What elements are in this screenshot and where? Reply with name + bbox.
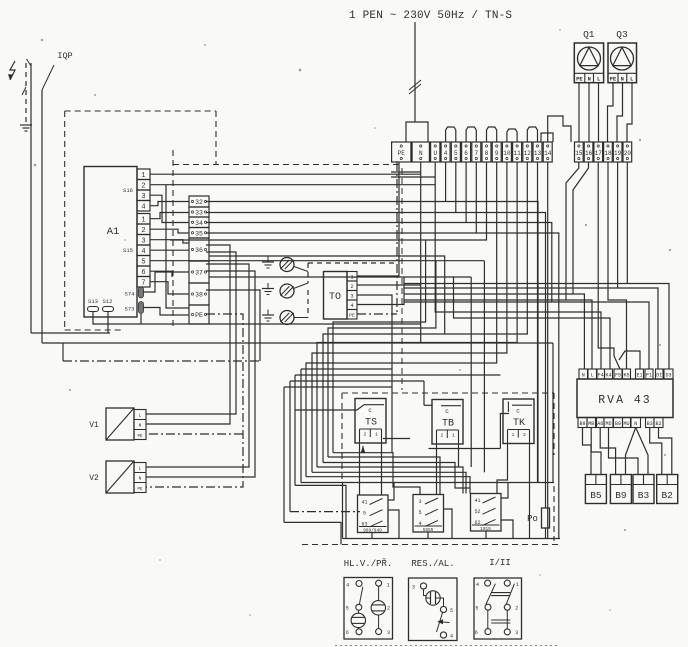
svg-text:6: 6 bbox=[141, 269, 145, 277]
dashed border right of A1 bbox=[172, 150, 174, 330]
jumper loop terminals 10-11 bbox=[507, 129, 517, 142]
wire row 302 left extension bbox=[404, 301, 552, 303]
switch legend HL.V./PR. bbox=[344, 578, 393, 640]
wire IQP feeder bbox=[41, 90, 43, 343]
wire nested row 381 to TB bbox=[290, 380, 424, 382]
svg-text:5: 5 bbox=[475, 606, 478, 612]
svg-text:c: c bbox=[368, 407, 372, 414]
svg-text:L: L bbox=[139, 413, 142, 419]
svg-text:PE: PE bbox=[610, 77, 617, 83]
svg-text:4: 4 bbox=[141, 248, 145, 256]
svg-text:37: 37 bbox=[195, 270, 203, 277]
terminal strip X1 (PE N U 4-14) bbox=[392, 142, 553, 162]
svg-text:F1: F1 bbox=[646, 373, 652, 379]
svg-text:2: 2 bbox=[523, 432, 526, 438]
wire terminal 13 drop deep to rail bbox=[537, 162, 539, 483]
svg-text:6: 6 bbox=[346, 630, 349, 636]
switch legend I/II bbox=[474, 578, 522, 639]
svg-text:36: 36 bbox=[195, 247, 203, 254]
svg-text:2: 2 bbox=[350, 283, 353, 290]
svg-text:PE: PE bbox=[137, 488, 143, 492]
wire K3 bottom bbox=[485, 531, 487, 539]
svg-text:RVA 43: RVA 43 bbox=[598, 394, 651, 407]
svg-text:N: N bbox=[419, 150, 423, 157]
wire 38 to PE run bbox=[206, 290, 260, 361]
svg-text:PE: PE bbox=[349, 313, 355, 319]
wire sensor 3 tap bbox=[294, 317, 308, 319]
svg-text:2: 2 bbox=[141, 183, 145, 191]
wire row 254 to K3 riser2 bbox=[436, 260, 485, 262]
thermostat TS bbox=[355, 399, 386, 444]
svg-text:PE: PE bbox=[398, 150, 406, 157]
sensor B2 bbox=[657, 475, 678, 504]
jumper loop terminals 4-5 bbox=[446, 127, 456, 142]
wire 34 row to F1 bbox=[206, 223, 649, 370]
svg-text:HL.V./PŘ.: HL.V./PŘ. bbox=[344, 558, 393, 569]
svg-text:B3: B3 bbox=[647, 421, 653, 427]
jumper loop terminals 8-9 bbox=[487, 127, 497, 142]
wire rows below PE bbox=[391, 171, 421, 173]
wire RVA B2 to B2 right bbox=[659, 428, 672, 475]
wire dash-dot into relay K1 bbox=[290, 511, 360, 513]
svg-text:41: 41 bbox=[474, 498, 480, 504]
dashed shield run horizontal bbox=[308, 262, 397, 264]
jumper hook 14 to 15 bbox=[548, 116, 571, 142]
wire A1:7b to 38 bbox=[150, 282, 189, 294]
wire bus bottom row 8 bbox=[295, 485, 346, 538]
wire N drop to bottom bus bbox=[420, 162, 422, 343]
svg-text:3: 3 bbox=[412, 585, 415, 591]
wire TB bottom link bbox=[429, 448, 501, 450]
wire 32 row deep to rail bbox=[206, 202, 538, 483]
wire TO PE dash-dot bbox=[357, 313, 397, 315]
svg-text:N: N bbox=[634, 421, 637, 427]
svg-text:5: 5 bbox=[450, 608, 453, 614]
wire S73 to PE cell bbox=[144, 308, 190, 316]
svg-text:32: 32 bbox=[195, 199, 203, 206]
wire K1 bottom bbox=[371, 533, 373, 539]
valve V2 bbox=[106, 461, 134, 493]
wire chain row240 to nested bus bbox=[333, 240, 426, 453]
wire Q1 N to terminal 16 bbox=[588, 83, 590, 142]
svg-text:K5: K5 bbox=[623, 373, 629, 379]
jumper loop terminals 6-7 bbox=[466, 127, 476, 142]
outdoor sensor 3 with ground bbox=[262, 310, 294, 325]
svg-text:20: 20 bbox=[624, 150, 632, 157]
wire 33 row deep to fuse Po bbox=[206, 213, 546, 483]
wire TK c down left bbox=[500, 414, 509, 449]
svg-text:B9: B9 bbox=[579, 421, 585, 427]
wire K2 right bbox=[444, 509, 453, 539]
dashed shield run vertical bbox=[307, 263, 309, 283]
wire RVA N fork right to B3 right bbox=[636, 428, 648, 475]
controller RVA 43 bbox=[577, 379, 673, 418]
wire terminal 14 drop deep bbox=[547, 162, 549, 539]
svg-text:V2: V2 bbox=[89, 474, 99, 483]
wire hop to E1 bbox=[619, 351, 640, 369]
svg-text:L: L bbox=[630, 77, 633, 83]
ground symbol left bbox=[20, 124, 32, 126]
svg-text:1: 1 bbox=[387, 583, 390, 589]
wire 37 to V2 L bbox=[146, 264, 249, 467]
outdoor sensor 2 with ground bbox=[262, 283, 294, 298]
svg-text:3: 3 bbox=[141, 238, 145, 246]
sensor B5 bbox=[585, 475, 606, 504]
svg-text:PE: PE bbox=[195, 312, 203, 319]
svg-text:TK: TK bbox=[513, 418, 525, 429]
wire Q1 PE to terminal 15 bbox=[578, 83, 580, 142]
wire TO2 tap bbox=[357, 284, 421, 286]
wire bus bottom row 6 bbox=[306, 477, 470, 494]
svg-text:S73: S73 bbox=[125, 306, 135, 313]
wire terminal 10 drop to nested bus bbox=[312, 162, 507, 472]
svg-text:MB: MB bbox=[588, 421, 594, 427]
wire sensor 2 tap bbox=[294, 283, 309, 289]
wire terminal 12 drop to nested bus bbox=[323, 162, 527, 463]
wire row 256 chain bbox=[209, 256, 445, 334]
svg-text:L: L bbox=[591, 373, 594, 379]
thermostat TB bbox=[432, 400, 463, 445]
svg-text:F4: F4 bbox=[598, 373, 604, 379]
svg-text:12: 12 bbox=[524, 150, 532, 157]
svg-text:DI: DI bbox=[656, 373, 662, 379]
dashed enclosure thermostat group bbox=[342, 392, 554, 394]
dashed enclosure around A1 bbox=[65, 110, 216, 112]
svg-text:6: 6 bbox=[475, 630, 478, 636]
svg-text:2: 2 bbox=[141, 227, 145, 235]
wire PE dash-dot bottom bbox=[63, 360, 260, 362]
wire row 294 left extension bbox=[404, 293, 573, 295]
svg-text:S12: S12 bbox=[103, 298, 113, 305]
relay contacts K2 bbox=[413, 495, 444, 533]
wire row 265 to K3 riser bbox=[454, 276, 472, 278]
svg-text:5: 5 bbox=[418, 510, 421, 516]
wire stub to dash-dot PE run bbox=[62, 343, 64, 361]
svg-text:L: L bbox=[597, 77, 600, 83]
wire sensor 1 tap bbox=[294, 267, 308, 272]
wire TK bottom to relay K3 bbox=[497, 447, 508, 494]
jumper loop terminals 12-13 bbox=[527, 127, 537, 142]
wire A1:1b to 33 bbox=[150, 213, 189, 219]
svg-text:TS: TS bbox=[365, 418, 377, 429]
svg-text:L: L bbox=[139, 466, 142, 472]
wire 35 row deep to bottom rail bbox=[206, 233, 559, 539]
wire A1:3 to 34 bbox=[150, 195, 189, 222]
wire A1:2 row right bbox=[150, 184, 435, 186]
svg-text:I/II: I/II bbox=[489, 558, 511, 568]
wire A1:4 to 32 bbox=[150, 202, 189, 206]
svg-text:B9: B9 bbox=[615, 421, 621, 427]
svg-text:MD: MD bbox=[605, 421, 611, 427]
svg-text:8: 8 bbox=[485, 150, 489, 157]
svg-text:4: 4 bbox=[141, 204, 145, 212]
wire Q3 L to terminal 20 bbox=[627, 83, 632, 142]
relay contacts K3 bbox=[471, 494, 502, 532]
wire N bottom horizontal bbox=[42, 342, 553, 344]
wire row277 to K4 bbox=[209, 277, 610, 369]
wire TO 4 bbox=[357, 277, 404, 305]
svg-text:B2: B2 bbox=[655, 421, 661, 427]
svg-text:PE: PE bbox=[576, 77, 583, 83]
wire below S73 bbox=[140, 314, 142, 324]
svg-text:52: 52 bbox=[474, 509, 480, 515]
svg-text:4: 4 bbox=[444, 150, 448, 157]
wire Q3 N to terminal 19 bbox=[617, 83, 623, 142]
cable mark on supply wire bbox=[409, 84, 421, 94]
svg-text:B9: B9 bbox=[615, 490, 627, 501]
svg-text:3: 3 bbox=[515, 630, 518, 636]
wire N row drop right bbox=[552, 343, 554, 483]
wire L feeder bbox=[30, 63, 32, 333]
wire terminal 15 drop diagonal to L bbox=[566, 162, 592, 369]
svg-text:Q3: Q3 bbox=[616, 29, 628, 40]
dashed border below strip bbox=[401, 168, 403, 390]
svg-text:16: 16 bbox=[585, 150, 593, 157]
wire S74 to 37 bbox=[144, 272, 190, 292]
thermostat TO bbox=[324, 272, 348, 320]
wire TB bottom to relay K2 bbox=[436, 448, 438, 495]
wire terminal 4 drop bbox=[445, 162, 447, 202]
svg-text:2: 2 bbox=[441, 433, 444, 439]
wire TO 3 bbox=[357, 295, 392, 453]
svg-text:U: U bbox=[433, 150, 437, 157]
svg-text:N: N bbox=[139, 423, 142, 429]
svg-text:14: 14 bbox=[544, 150, 552, 157]
svg-text:Q1: Q1 bbox=[583, 29, 595, 40]
wire K3 right bbox=[501, 483, 508, 499]
svg-text:c: c bbox=[516, 408, 520, 415]
wire supply split to PE and N bbox=[406, 122, 428, 142]
wire TS bottom right bbox=[383, 438, 410, 440]
wire terminal 20 drop to D3 bbox=[627, 162, 669, 369]
svg-text:19: 19 bbox=[614, 150, 622, 157]
svg-text:33: 33 bbox=[195, 210, 203, 217]
wire terminal 6 drop bbox=[465, 162, 467, 223]
svg-text:5: 5 bbox=[346, 606, 349, 612]
svg-text:34: 34 bbox=[195, 220, 203, 227]
wire supply drop bbox=[414, 22, 416, 122]
wire chain row260 to nested bus bbox=[150, 261, 436, 457]
svg-text:K4: K4 bbox=[605, 373, 611, 379]
svg-text:2: 2 bbox=[364, 432, 367, 438]
wire row 300 left extension bbox=[404, 299, 566, 301]
wire A1:4b stub bbox=[150, 249, 189, 251]
wire TS bottom to relay K1 bbox=[359, 447, 361, 496]
wire RVA N fork left to B9 right bbox=[626, 428, 636, 475]
dotted bottom scan edge bbox=[335, 645, 560, 647]
wire terminal 17 drop to F5 bbox=[598, 162, 620, 369]
sensor B3 bbox=[633, 475, 654, 504]
svg-text:N: N bbox=[582, 373, 585, 379]
svg-text:V1: V1 bbox=[89, 421, 99, 430]
svg-text:18: 18 bbox=[604, 150, 612, 157]
wire RVA A6 to B9 left bbox=[600, 428, 615, 475]
dashed border top of bus bbox=[173, 164, 402, 166]
wire bus bottom row 5 bbox=[312, 472, 466, 493]
svg-text:1: 1 bbox=[375, 432, 378, 438]
svg-text:4: 4 bbox=[450, 634, 453, 640]
svg-text:15: 15 bbox=[575, 150, 583, 157]
wire terminal 8 drop bbox=[170, 162, 487, 240]
wire PE dash-dot from strip to TO bbox=[396, 162, 398, 314]
valve V1 bbox=[106, 408, 134, 440]
thermostat TK bbox=[503, 399, 534, 444]
svg-text:1: 1 bbox=[516, 582, 519, 588]
wire K2 bottom bbox=[427, 532, 429, 539]
svg-text:1: 1 bbox=[512, 432, 515, 438]
svg-text:A6: A6 bbox=[597, 421, 603, 427]
wire RVA B9 to B5 left bbox=[583, 428, 592, 475]
wire nested row 369 bbox=[301, 368, 392, 370]
outdoor sensor 1 with ground bbox=[262, 257, 294, 272]
wire into TS left with lever bbox=[295, 405, 364, 410]
svg-text:2: 2 bbox=[387, 606, 390, 612]
svg-text:B5: B5 bbox=[590, 490, 602, 501]
svg-text:13: 13 bbox=[534, 150, 542, 157]
wire terminal 5 drop bbox=[455, 162, 457, 213]
wire 36 to V1 N bbox=[146, 245, 230, 424]
svg-text:A1: A1 bbox=[107, 226, 120, 238]
svg-text:4: 4 bbox=[476, 582, 479, 588]
svg-text:c: c bbox=[445, 408, 449, 415]
svg-text:Po: Po bbox=[527, 514, 538, 524]
svg-text:TO: TO bbox=[329, 292, 341, 303]
wire U drop to F4 bbox=[435, 162, 601, 369]
svg-text:N: N bbox=[588, 77, 591, 83]
wire terminal 7 drop bbox=[475, 162, 477, 233]
controller A1 bbox=[84, 167, 137, 318]
svg-text:7: 7 bbox=[141, 280, 145, 288]
wire Q3 PE to terminal 18 bbox=[608, 83, 614, 142]
svg-text:E1: E1 bbox=[636, 373, 642, 379]
svg-text:S15: S15 bbox=[123, 247, 133, 254]
svg-text:RES./AL.: RES./AL. bbox=[411, 559, 454, 569]
svg-text:10: 10 bbox=[503, 150, 511, 157]
svg-text:TB: TB bbox=[442, 419, 454, 430]
svg-text:1 PEN ~ 230V 50Hz / TN-S: 1 PEN ~ 230V 50Hz / TN-S bbox=[349, 10, 512, 22]
svg-text:7: 7 bbox=[474, 150, 478, 157]
svg-text:D3: D3 bbox=[665, 373, 671, 379]
wire bottom left link bbox=[284, 522, 341, 544]
wire PEN dashed with earth bbox=[25, 63, 27, 125]
wire rail bottom bbox=[343, 538, 561, 540]
wire nested row 387 bbox=[284, 386, 392, 388]
wire 36 to V1 L bbox=[146, 252, 236, 414]
wire bottom horizontal to S12 bbox=[31, 332, 110, 334]
wire S12 down bbox=[107, 312, 109, 333]
wire 37 to V2 N bbox=[146, 271, 255, 477]
sensor B9 bbox=[610, 475, 631, 504]
wire TO 1 bbox=[357, 162, 399, 276]
svg-text:1: 1 bbox=[452, 433, 455, 439]
switch legend RES./AL. bbox=[409, 578, 458, 641]
wire bus bottom row 4 bbox=[317, 467, 463, 494]
lightning arrow symbol bbox=[10, 61, 15, 80]
svg-text:3: 3 bbox=[418, 499, 421, 505]
svg-text:IQP: IQP bbox=[57, 51, 72, 61]
svg-text:4: 4 bbox=[346, 583, 349, 589]
wire RVA MB to B5 right bbox=[591, 428, 601, 475]
svg-text:9: 9 bbox=[495, 150, 499, 157]
svg-text:S74: S74 bbox=[125, 291, 136, 298]
wire bus bottom row 2 bbox=[328, 457, 440, 495]
svg-text:N: N bbox=[621, 77, 624, 83]
wire K1 right to rail bbox=[388, 483, 394, 501]
wire terminal 18 drop to K5 bbox=[608, 162, 627, 369]
svg-text:2: 2 bbox=[515, 606, 518, 612]
wire bus bottom row 1 bbox=[333, 453, 420, 495]
wire terminal 9 drop to nested bus bbox=[306, 162, 497, 477]
svg-text:S16: S16 bbox=[123, 187, 133, 194]
wire S13 down and right bbox=[93, 312, 421, 324]
svg-text:1: 1 bbox=[141, 172, 145, 180]
wire A1:2 down to 38 bbox=[166, 185, 189, 308]
wire A1:6b link bbox=[150, 271, 172, 277]
svg-text:MU: MU bbox=[623, 421, 629, 427]
svg-text:3: 3 bbox=[350, 293, 353, 300]
svg-text:B3: B3 bbox=[638, 490, 650, 501]
svg-text:B2: B2 bbox=[661, 490, 673, 501]
wire bus bottom row 3 bbox=[323, 463, 470, 489]
svg-text:3: 3 bbox=[387, 630, 390, 636]
wire A1:2b to 35 bbox=[150, 229, 189, 233]
wire rail top bbox=[301, 482, 554, 484]
wire A1:3b to 36 bbox=[150, 240, 189, 243]
svg-text:38: 38 bbox=[195, 292, 203, 299]
wire terminal 11 drop to nested bus bbox=[317, 162, 517, 467]
wire into TB left bbox=[424, 404, 432, 406]
wire RVA B3 to B2 left bbox=[650, 428, 662, 475]
svg-text:5: 5 bbox=[454, 150, 458, 157]
svg-text:35: 35 bbox=[195, 230, 203, 237]
wire A1:1 row to N drop bbox=[150, 173, 421, 175]
relay contacts K1 bbox=[358, 495, 389, 533]
terminal strip X2 (15-20) bbox=[575, 142, 632, 162]
svg-text:989/949: 989/949 bbox=[363, 528, 382, 533]
svg-text:5: 5 bbox=[363, 511, 366, 517]
svg-text:11: 11 bbox=[513, 150, 521, 157]
wire Q1 L to terminal 17 bbox=[598, 83, 600, 142]
svg-text:3: 3 bbox=[141, 193, 145, 201]
svg-text:S13: S13 bbox=[88, 298, 98, 305]
terminal strip 32-38 PE bbox=[189, 196, 209, 324]
jumper stub above 13-14 bbox=[541, 133, 553, 142]
svg-text:1: 1 bbox=[141, 217, 145, 225]
wire PE dash-dot to V1 V2 bbox=[146, 314, 243, 487]
wire terminal 19 drop to DI bbox=[618, 162, 658, 369]
svg-text:5: 5 bbox=[141, 259, 145, 267]
wire terminal 16 drop diagonal to N bbox=[573, 162, 589, 369]
svg-text:N: N bbox=[139, 476, 142, 482]
svg-text:6: 6 bbox=[464, 150, 468, 157]
dashed rail bottom bbox=[302, 544, 560, 546]
svg-text:PE: PE bbox=[137, 435, 143, 439]
svg-text:17: 17 bbox=[595, 150, 603, 157]
wire RVA MD to B3 left bbox=[609, 428, 639, 475]
svg-text:41: 41 bbox=[361, 499, 367, 505]
svg-text:F5: F5 bbox=[615, 373, 621, 379]
wire nested row 375 to TK bbox=[295, 374, 500, 376]
